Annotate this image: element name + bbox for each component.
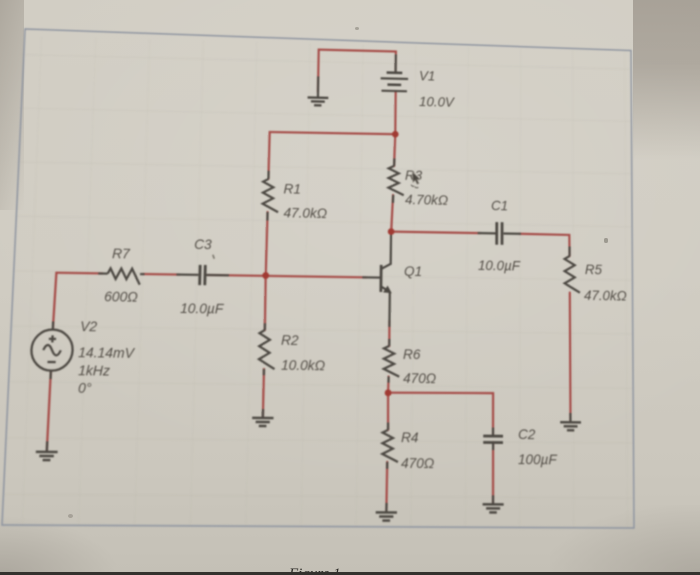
svg-text:R7: R7 [112,246,131,262]
ground (R5) [560,422,581,430]
wire: V1 top to ground [318,50,396,94]
resistor R7 [107,268,140,284]
resistor R3 [388,166,404,195]
wire: top bus to R1 [268,132,395,182]
svg-text:10.0V: 10.0V [419,94,456,110]
wire: C1 leads [478,232,521,235]
wire: Q1 emitter to R6 [388,321,391,346]
svg-text:C1: C1 [491,198,508,213]
wire: V2 bottom to ground [47,371,51,451]
node: emitter junction [385,389,392,396]
wire: C3 to Q1 base [208,275,367,277]
svg-text:C3: C3 [194,237,212,252]
wire: V1 bottom to top bus junction [394,91,397,134]
svg-text:100µF: 100µF [518,452,557,468]
svg-text:0°: 0° [78,381,93,397]
resistor R1 [262,179,278,212]
wire: R3 leads [393,158,394,202]
ground (C2) [483,504,504,512]
wire: R5 leads [568,247,571,423]
svg-text:47.0kΩ: 47.0kΩ [584,288,627,304]
ground (R4) [376,512,397,520]
wire: C3 leads [176,273,229,276]
svg-text:V2: V2 [80,319,98,335]
svg-text:10.0µF: 10.0µF [478,258,521,274]
speck near C3 [213,255,215,259]
dust speck [68,514,73,518]
wire: R1 bottom to base junction [266,212,268,275]
svg-text:R5: R5 [585,262,603,277]
svg-text:470Ω: 470Ω [403,371,436,387]
svg-text:V1: V1 [419,68,435,83]
blue border frame [2,29,634,528]
wire: R3 top lead [394,134,395,166]
svg-text:4.70kΩ: 4.70kΩ [405,192,448,208]
svg-text:470Ω: 470Ω [401,456,434,472]
svg-text:R6: R6 [403,347,421,363]
svg-text:10.0µF: 10.0µF [180,301,224,317]
svg-text:1kHz: 1kHz [78,363,111,379]
wire: R3 bottom to collector junction [391,195,393,232]
wire: R2 leads [263,323,265,418]
svg-text:14.14mV: 14.14mV [78,345,136,361]
battery V1 [380,72,408,91]
wire: emitter bus to C2 [388,392,494,436]
wire: Q1 emitter black segment [388,292,391,327]
wire: R6 bottom to emitter junction [387,377,390,393]
svg-text:Q1: Q1 [404,264,422,279]
wire: Q1 base lead [362,276,380,278]
wire: base bus V2 corner to R7 [53,273,102,331]
mouse cursor [411,172,420,188]
bottom dark strip [0,572,700,575]
resistor R4 [382,430,398,462]
wire: R5 bottom to ground [569,293,572,422]
wire: V1 ground lead [317,76,320,97]
wire: R4 leads [386,423,388,513]
wire: C2 bottom to ground [492,442,495,503]
transistor Q1 [381,231,392,292]
capacitor C3 [200,265,206,285]
capacitor C1 [497,222,502,245]
svg-text:R4: R4 [401,430,419,446]
wire: R7 leads [98,272,144,275]
wire: R4 from junction to ground [386,393,388,512]
node: top bus junction [392,131,399,138]
canvas grid [2,36,634,528]
svg-text:C2: C2 [518,427,536,443]
resistor R6 [384,346,400,377]
wire: C2 leads [492,428,495,505]
wire: collector junction to C1 [391,232,480,234]
partial Figure text [289,566,409,573]
ground (V1) [307,97,328,105]
wire: R2 from base junction to ground [263,275,266,416]
resistor R2 [259,330,276,369]
ground (V2) [36,452,58,460]
svg-text:600Ω: 600Ω [104,289,138,305]
wire: V1 top lead [395,54,397,72]
node: collector junction [388,228,395,235]
svg-text:10.0kΩ: 10.0kΩ [281,358,325,374]
wire: R1 leads [267,171,268,221]
wire: V2 leads [47,321,53,451]
wire: C1 to R5 top corner [519,234,570,256]
svg-text:47.0kΩ: 47.0kΩ [283,205,327,221]
schematic frame [2,36,634,528]
resistor R5 [565,256,580,293]
wire: R6 leads [387,339,390,383]
ground (R2) [252,418,274,426]
source V2 [31,329,74,371]
capacitor C2 [483,436,503,443]
svg-text:R1: R1 [283,181,301,196]
svg-text:R2: R2 [281,333,299,349]
node: base junction [262,272,269,279]
wire: R7 to C3 [143,273,179,276]
